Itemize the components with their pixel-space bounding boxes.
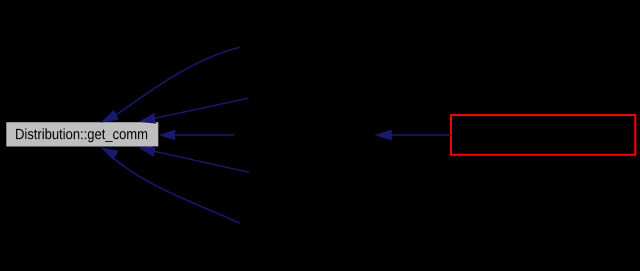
edge E3: horizontal caller line into node right edge (175, 134, 235, 136)
edge E4: lower-right caller line into node bottom (154, 151, 249, 172)
arrowhead A5 of edge E5 (102, 148, 118, 159)
node label: Distribution::get_comm (16, 128, 147, 142)
node box: highlighted caller (red border) (451, 115, 635, 155)
arrowhead A4 of edge E4 (140, 147, 155, 156)
arrowhead A2 of edge E2 (140, 114, 156, 123)
edge E1: top caller curve into node top (116, 47, 240, 115)
edge E6: from red caller node toward middle node (391, 134, 451, 136)
edge E5: bottom caller curve into node bottom (112, 157, 240, 223)
arrowhead A1 of edge E1 (102, 111, 118, 122)
edge E2: upper-right caller line into node top (155, 98, 249, 118)
node box: Distribution::get_comm (current function, gray fill) (6, 122, 159, 147)
arrowhead A3 of edge E3 (160, 130, 175, 140)
arrowhead A6 of edge E6 (376, 130, 391, 140)
